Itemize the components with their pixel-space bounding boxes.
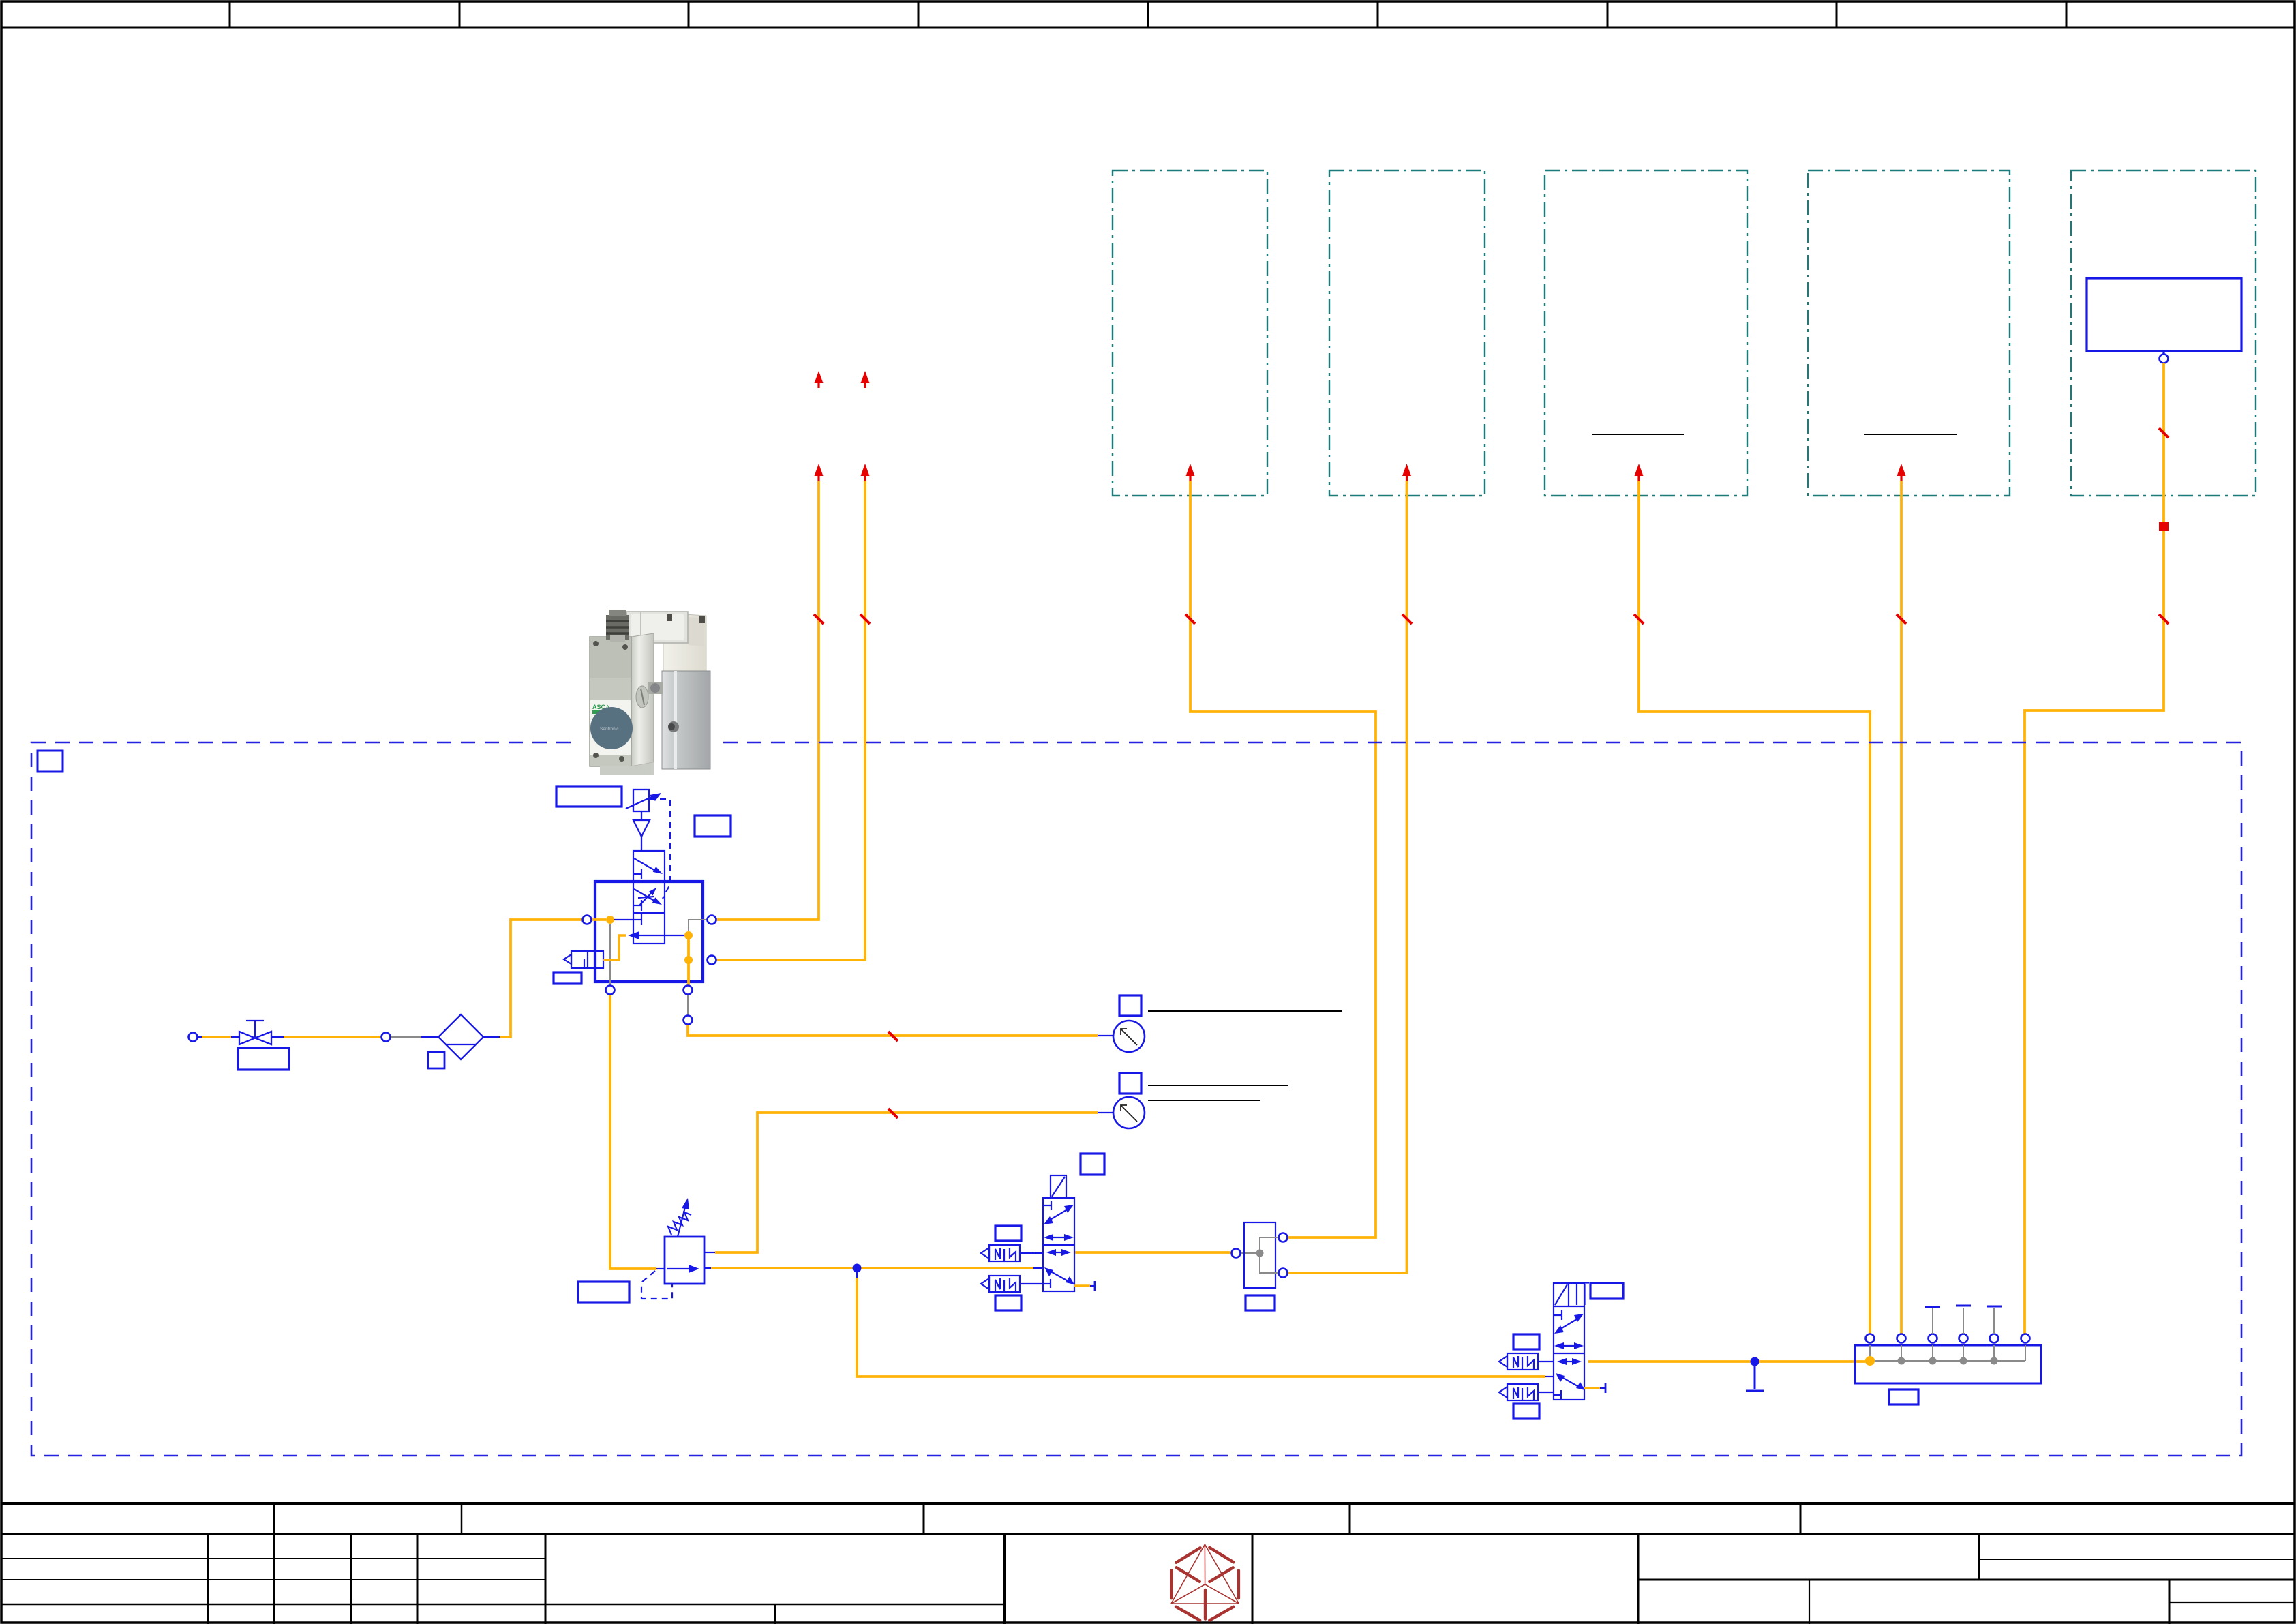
clear top block [626,612,688,643]
dark circle label [590,707,633,749]
red break tick on A5 wire (upper) [2159,428,2169,438]
label box of SH1 (empty) [1245,1295,1275,1310]
top cell T stub [1043,1205,1051,1206]
red arrow on riser W1 [815,464,824,481]
pilot dashed line of R1 [641,1271,672,1299]
label box of flow-control (empty) [556,787,622,807]
spring of R1 [668,1202,691,1237]
wire: shuttle top out to actuator A1 [1190,481,1376,1237]
wire: PV outlet A to riser W1 [716,481,819,920]
wire: PV drain port to gauge G1 [688,995,1113,1036]
node N2 (port under PV) [684,1016,693,1025]
main body side face [631,633,654,766]
red arrow on A3 wire [1635,464,1644,481]
proportional valve cartridge symbol [633,851,665,944]
title block [1,1503,2295,1624]
floating red arrow above riser W1 [815,371,824,388]
arrowheads of SV1 [1044,1205,1074,1284]
solenoid valve SV2 [1554,1283,1589,1400]
actuator box A5 (dash-dot outline) [2071,170,2256,496]
internal tee of SH1 (gray) [1260,1237,1280,1273]
red break tick on A4 wire [1897,614,1906,624]
actuator box A1 (dash-dot outline) [1113,170,1267,496]
wire: node N1 to filter (gray) [391,1036,438,1038]
red break tick on gauge G2 wire [888,1109,898,1118]
actuator box A4 (dash-dot outline) [1808,170,2010,496]
wire: valve SV2 to manifold inlet [1588,1360,1867,1363]
leader line in box A3 [1592,434,1684,435]
oval thumb screw on side [636,686,648,708]
PV internal piping: outlet A gray loop [689,920,707,931]
drain tee J2 on manifold supply [1746,1366,1764,1391]
manifold M1 [1855,1345,2041,1383]
label box of M1 (empty) [1889,1389,1918,1404]
label box of G2 (empty) [1119,1073,1141,1094]
solenoid valve SV1 [1043,1175,1074,1291]
wire: valve SV1 out to shuttle valve [1035,1252,1257,1253]
bottom arrows [1560,1361,1578,1362]
wire: shutoff valve to node N1 [271,1036,381,1038]
enclosure boundary (dashed cabinet outline) [31,742,2241,1456]
red break tick on A3 wire [1634,614,1644,624]
junction J1 on regulator outlet [853,1264,862,1273]
cylinder block in box A5 [2087,278,2241,354]
arrowheads inside PV cartridge [649,867,663,905]
PV internal exhaust arrow line [638,935,686,936]
PV internal piping: inlet junction [592,920,633,985]
pressure gauge G2 [1113,1097,1145,1128]
mid double arrow [1048,1237,1069,1238]
manifold junction dots [1865,1356,1875,1366]
label boxes of SV1 (empty) [995,1154,1104,1310]
plug on SV2 bottom port [1584,1383,1605,1393]
red break tick on A5 wire (lower) [2159,614,2169,624]
leader lines of G2 [1148,1085,1288,1100]
wire: actuator A3 to manifold port 1 [1639,481,1870,1334]
manifold internal bus (gray) [1870,1345,2025,1361]
silver block lower right [662,671,710,769]
wire: regulator gauge port to gauge G2 [704,1113,1113,1252]
wire: cylinder A5 to manifold port 6 [2025,363,2164,1334]
red break tick on A2 wire [1402,614,1412,624]
title block horizontals [1,1558,545,1559]
arrowhead of R1 spring adjuster [682,1198,689,1209]
internal arrow of R1 [667,1268,691,1269]
wire: PV supply-down to regulator [610,995,665,1269]
proportional valve main enclosure box [595,882,703,982]
PV internal piping: outlet junctions orange [686,935,693,985]
wire: supply inlet to shutoff valve [198,1036,239,1038]
main body front face [590,637,631,766]
label box C (empty) [554,972,581,984]
needle of G1 [1121,1029,1137,1045]
wire: PV outlet B to riser W2 [716,481,865,960]
PV bleed device on left wall [564,951,603,968]
red arrow on A2 wire [1402,464,1411,481]
port of cylinder block A5 [2160,355,2169,363]
wire: junction J1 down to valve SV2 [857,1272,1554,1377]
pressure gauge G1 [1113,1021,1145,1052]
label box of R1 (empty) [578,1282,629,1302]
red arrow on riser W2 [861,464,870,481]
filter F1 [438,1014,483,1059]
svg-text:Sentronic: Sentronic [600,727,619,732]
wire: actuator A4 to manifold port 2 [1900,481,1903,1334]
arrowheads of SV2 [1554,1314,1585,1390]
exhaust muffler SV2 lower [1499,1384,1554,1400]
red arrow on A4 wire [1897,464,1906,481]
red break tick on riser W1 [814,614,824,624]
wire: shuttle bottom out to actuator A2 [1288,481,1407,1273]
arrowhead of throttle [650,793,661,801]
label boxes of SV2 (empty) [1513,1283,1623,1419]
diagonal flow path [1558,1317,1580,1330]
corner caps of rear block [667,614,672,621]
bottom cell: supply T stub [633,919,641,920]
latch screw mid [648,682,663,694]
T stub [1554,1314,1562,1316]
label box B (empty) [695,815,731,837]
top reference grid row [1,1,2295,27]
red break tick on gauge G1 wire [888,1032,898,1041]
wire: bleed to exhaust arrow [603,935,626,960]
shuttle valve SH1 [1244,1222,1275,1288]
red arrow on A1 wire [1186,464,1195,481]
connector cylinder [606,615,629,640]
wire: regulator outlet to valve SV1 [704,1267,1044,1269]
pressure regulator R1 [665,1237,704,1284]
floating red arrow above riser W2 [861,371,870,388]
junction dot PV inlet [606,916,614,924]
red break tick on A1 wire [1185,614,1195,624]
label box of F1 (empty) [428,1052,444,1068]
pilot control dashed line [649,799,670,899]
red square marker on A5 wire [2159,522,2169,531]
screws [593,641,599,646]
flow control valve (throttle) above PV [626,790,653,811]
exhaust muffler SV1 upper [981,1245,1043,1261]
company logo (hexagon emblem) [1171,1544,1239,1620]
ports of SH1 [1232,1233,1288,1278]
needle of G2 [1121,1105,1137,1122]
base skirt [600,762,654,775]
exhaust muffler SV1 lower [981,1276,1043,1292]
exhaust muffler SV2 upper [1499,1353,1554,1370]
check valve under throttle [633,811,650,851]
title block left grid verticals [207,1534,209,1624]
pilot solenoid box [1051,1175,1066,1198]
bottom cell arrows [1050,1252,1068,1253]
plug fittings on manifold ports 3-5 [1933,1308,1994,1334]
wire: filter to proportional valve inlet [483,920,581,1037]
shutoff valve HV1 [239,1021,271,1044]
node N1 (line connector) [382,1033,391,1042]
label box of HV1 (empty) [238,1048,289,1070]
valve body [1043,1198,1074,1291]
actuator box A3 (dash-dot outline) [1545,170,1747,496]
leader line in box A4 [1864,434,1957,435]
enclosure label box [37,751,63,772]
mid double arrow [1559,1345,1580,1347]
title row separators [273,1503,275,1534]
actuator box A2 (dash-dot outline) [1329,170,1485,496]
mid cell: throttle arrow cross [633,905,641,906]
PV port circles [583,916,716,995]
manifold port circles [1866,1334,2030,1343]
rear ivory block [663,613,706,678]
diagonal flow path [1048,1208,1070,1221]
leader line of G1 [1148,1010,1342,1012]
white label [590,700,631,755]
inlet port P [189,1033,198,1042]
top cell: arrow + T stub [633,873,641,875]
label box of G1 (empty) [1119,995,1141,1016]
plug on SV1 bottom port [1074,1281,1095,1291]
red break tick on riser W2 [860,614,870,624]
